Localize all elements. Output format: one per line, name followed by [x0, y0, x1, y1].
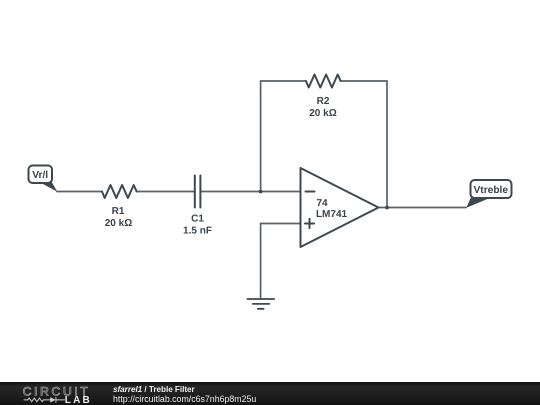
node Vtreble flag box: [471, 180, 512, 198]
svg-text:LAB: LAB: [65, 395, 92, 405]
junction node A dot: [259, 190, 263, 194]
svg-text:20 kΩ: 20 kΩ: [105, 218, 132, 229]
resistor R2: [306, 75, 341, 88]
wire C1 to node A: [200, 191, 260, 193]
op-amp inverting input minus sign: [306, 191, 315, 193]
wire non-inverting input: [261, 223, 301, 225]
wire output: [379, 207, 467, 209]
node Vr/l flag tail: [41, 182, 57, 192]
junction output node dot: [385, 206, 389, 210]
svg-text:74: 74: [316, 198, 328, 209]
svg-text:1.5 nF: 1.5 nF: [183, 226, 212, 237]
footer bar: [0, 382, 540, 405]
resistor R1: [102, 185, 137, 198]
logo diode triangle: [50, 397, 56, 402]
op-amp non-inverting input plus sign: [305, 219, 314, 228]
wire feedback top right: [341, 80, 387, 82]
footer credit text: [113, 385, 256, 405]
wire input to R1: [57, 191, 102, 193]
wire feedback right vertical: [386, 81, 388, 208]
node Vr/l flag box: [29, 166, 53, 184]
op-amp U1 triangle: [301, 168, 379, 247]
svg-text:LM741: LM741: [316, 209, 348, 220]
svg-text:Vr/l: Vr/l: [32, 170, 48, 181]
logo diode cathode bar and wire: [56, 397, 65, 402]
wire R1 to C1: [137, 191, 195, 193]
svg-text:R1: R1: [112, 206, 125, 217]
node Vtreble flag tail: [466, 198, 488, 208]
svg-text:C1: C1: [191, 214, 204, 225]
wire to ground: [260, 224, 262, 299]
svg-text:20 kΩ: 20 kΩ: [309, 108, 336, 119]
wire feedback top left: [261, 80, 306, 82]
ground: [247, 299, 274, 309]
wire feedback left vertical: [260, 81, 262, 192]
svg-text:R2: R2: [317, 96, 330, 107]
CircuitLab logo: [0, 382, 110, 405]
svg-text:Vtreble: Vtreble: [474, 185, 509, 196]
wire node A to op-amp inverting input: [261, 191, 301, 193]
logo resistor zigzag: [24, 398, 50, 402]
capacitor C1 plates: [195, 176, 201, 208]
